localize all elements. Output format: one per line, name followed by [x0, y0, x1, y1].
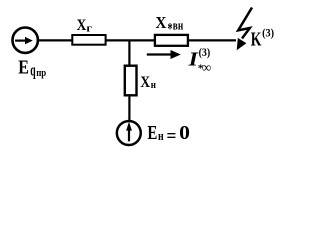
svg-text:E: E [18, 56, 29, 78]
short-circuit bolt [238, 8, 252, 39]
svg-text:вн: вн [173, 19, 183, 33]
svg-text:пр: пр [36, 68, 46, 79]
svg-text:X: X [77, 17, 87, 34]
svg-text:(3): (3) [199, 47, 211, 59]
svg-text:(3): (3) [262, 28, 274, 40]
svg-text:X: X [156, 13, 168, 32]
svg-text:q: q [30, 61, 36, 80]
source E2 (circle with up arrow) [117, 121, 141, 145]
svg-text:=: = [167, 126, 177, 147]
svg-text:X: X [140, 74, 150, 91]
svg-text:E: E [147, 122, 157, 144]
resistor Xн (vertical box) [125, 66, 137, 96]
wire: vertical branch from junction node to load source [128, 40, 130, 121]
svg-text:∞: ∞ [202, 61, 211, 76]
svg-text:г: г [86, 23, 92, 35]
resistor X*вн (box) [155, 35, 188, 46]
svg-text:н: н [158, 129, 164, 143]
source E1 (circle with right arrow) [13, 28, 38, 53]
svg-text:*: * [168, 19, 173, 38]
svg-text:0: 0 [179, 122, 190, 144]
svg-text:н: н [151, 79, 157, 91]
wire: main horizontal from source E1 to fault point [25, 39, 236, 41]
current arrow I∞ [147, 53, 172, 55]
resistor Xг (box) [72, 35, 105, 45]
svg-text:K: K [251, 29, 262, 51]
